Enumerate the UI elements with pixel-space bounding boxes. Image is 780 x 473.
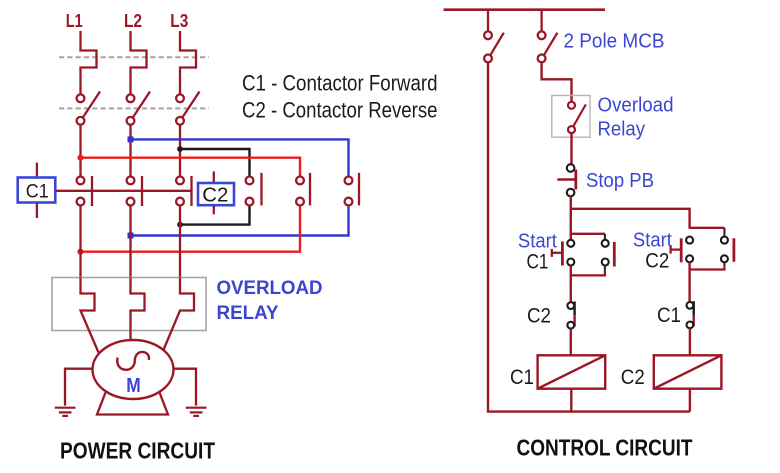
NC interlock contact C2 <box>567 302 574 329</box>
C2 main contact pole 3 <box>345 173 359 206</box>
switch linkage dashed line <box>59 107 209 109</box>
red wire bottom (contact 5 to L1) <box>81 205 301 252</box>
svg-text:OVERLOAD: OVERLOAD <box>217 278 323 299</box>
C1 main contact pole 3 <box>176 176 191 206</box>
wire L1 switch to contact <box>79 124 81 176</box>
svg-text:L3: L3 <box>170 10 188 31</box>
MCB pole 2 <box>538 10 558 63</box>
black wire bottom (contact 4 to L3) <box>180 205 250 224</box>
svg-text:C2 - Contactor Reverse: C2 - Contactor Reverse <box>242 98 438 123</box>
wire overload to stop pb <box>570 133 572 164</box>
wire nc to coil C2 <box>689 328 691 355</box>
fuse linkage dashed line (top) <box>59 56 209 58</box>
wire coil C2 to bus <box>689 389 691 412</box>
wire start to nc contact (left) <box>570 266 572 303</box>
svg-text:C2: C2 <box>527 304 551 328</box>
svg-text:POWER CIRCUIT: POWER CIRCUIT <box>60 438 216 464</box>
svg-text:Overload: Overload <box>598 94 674 117</box>
coil C2 <box>654 355 722 388</box>
red wire top (L1 tap to contact 5) <box>81 158 301 177</box>
isolator switch pole 3 <box>176 92 199 125</box>
wire motor right to ground <box>173 369 196 406</box>
label OVERLOAD RELAY (power) <box>217 278 323 324</box>
blue wire bottom (contact 6 to L2) <box>131 205 349 235</box>
svg-text:C1 - Contactor Forward: C1 - Contactor Forward <box>242 71 438 96</box>
svg-text:C2: C2 <box>621 365 645 389</box>
overload heater element 3 <box>163 278 194 352</box>
svg-text:C1: C1 <box>26 181 49 203</box>
svg-text:L1: L1 <box>66 10 83 31</box>
branch wire to right <box>571 209 690 229</box>
fuse jog L1 <box>81 31 97 95</box>
MCB pole 1 <box>484 10 504 63</box>
wire nc to coil C1 <box>570 329 572 356</box>
overload relay box (control) <box>552 96 590 138</box>
wire motor left to ground <box>65 369 93 406</box>
isolator switch pole 2 <box>127 92 150 125</box>
coil C1 <box>538 355 606 388</box>
motor M body <box>93 340 174 399</box>
ground left <box>55 408 76 416</box>
svg-text:Stop PB: Stop PB <box>586 169 654 192</box>
wire L3 switch to contact <box>179 124 181 176</box>
wire coil C1 to bus <box>570 389 572 412</box>
C2 main contact pole 2 <box>296 173 310 206</box>
motor base <box>97 393 168 415</box>
blue wire top (L2 tap to contact 6) <box>131 139 349 176</box>
C1 main contact pole 1 <box>77 176 92 206</box>
wire L2 switch to contact <box>129 124 131 176</box>
wire T2 contact to overload <box>129 205 131 277</box>
C1 linkage bar <box>56 190 192 192</box>
motor sine symbol <box>117 352 149 370</box>
svg-text:C2: C2 <box>645 249 669 273</box>
wire MCB to overload relay <box>542 62 572 102</box>
contactor C1 coil box <box>18 163 56 218</box>
wire T1 contact to overload <box>79 205 81 277</box>
control left rail <box>488 62 690 412</box>
svg-text:C1: C1 <box>657 303 681 327</box>
overload relay box (power) <box>52 278 206 331</box>
fuse jog L2 <box>131 31 147 95</box>
overload heater element 1 <box>81 278 99 353</box>
svg-text:C1: C1 <box>510 365 534 389</box>
wire start to nc contact (right) <box>688 262 690 301</box>
overload relay contact <box>568 102 586 133</box>
contactor C2 coil box <box>198 171 234 214</box>
NC interlock contact C1 <box>687 301 694 328</box>
svg-text:CONTROL CIRCUIT: CONTROL CIRCUIT <box>517 435 693 461</box>
svg-text:Relay: Relay <box>598 118 646 141</box>
black wire top (L3 tap to contact 4) <box>180 149 250 177</box>
svg-text:C1: C1 <box>527 250 549 274</box>
control top bus <box>444 8 606 11</box>
start pushbutton C1 branch <box>552 234 615 276</box>
node black tap bottom on L3 <box>177 222 183 228</box>
node blue tap top on L2 <box>128 136 134 142</box>
fuse jog L3 <box>180 31 196 95</box>
ground right <box>186 408 207 416</box>
overload heater element 2 <box>131 278 145 342</box>
C2 main contact pole 1 <box>246 173 262 206</box>
svg-text:C2: C2 <box>202 184 228 207</box>
C1 main contact pole 2 <box>127 176 142 206</box>
start pushbutton C2 branch <box>671 228 734 270</box>
wire stop pb down <box>570 196 572 239</box>
node black tap top on L3 <box>177 146 183 152</box>
node red tap bottom on L1 <box>77 249 83 255</box>
svg-text:M: M <box>126 374 141 397</box>
svg-text:RELAY: RELAY <box>217 303 279 324</box>
label Overload Relay <box>598 94 674 141</box>
stop pushbutton <box>557 164 576 196</box>
isolator switch pole 1 <box>77 92 100 125</box>
node blue tap bottom on L2 <box>128 233 134 239</box>
node red tap top on L1 <box>77 155 83 161</box>
svg-text:L2: L2 <box>124 10 142 31</box>
svg-text:2 Pole MCB: 2 Pole MCB <box>564 31 665 53</box>
wire T3 contact to overload <box>179 205 181 277</box>
